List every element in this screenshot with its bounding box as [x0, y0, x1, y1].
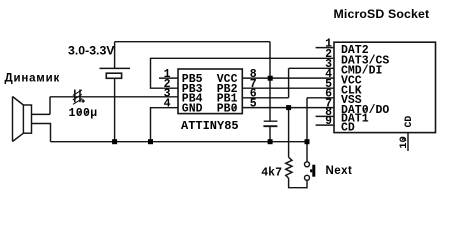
svg-text:GND: GND: [182, 103, 203, 116]
svg-text:Динамик: Динамик: [5, 72, 61, 84]
svg-text:MicroSD Socket: MicroSD Socket: [334, 7, 430, 21]
svg-text:PB0: PB0: [217, 103, 238, 116]
svg-text:4: 4: [164, 97, 171, 110]
svg-text:ATTINY85: ATTINY85: [181, 119, 239, 133]
svg-text:100µ: 100µ: [69, 107, 98, 120]
svg-text:3.0-3.3V: 3.0-3.3V: [68, 44, 115, 58]
svg-text:CD: CD: [403, 116, 414, 128]
svg-text:CD: CD: [341, 121, 355, 134]
svg-text:9: 9: [325, 115, 332, 128]
svg-text:10: 10: [398, 136, 410, 149]
svg-text:4k7: 4k7: [261, 167, 282, 180]
svg-text:Next: Next: [326, 165, 353, 177]
svg-text:5: 5: [250, 97, 257, 110]
